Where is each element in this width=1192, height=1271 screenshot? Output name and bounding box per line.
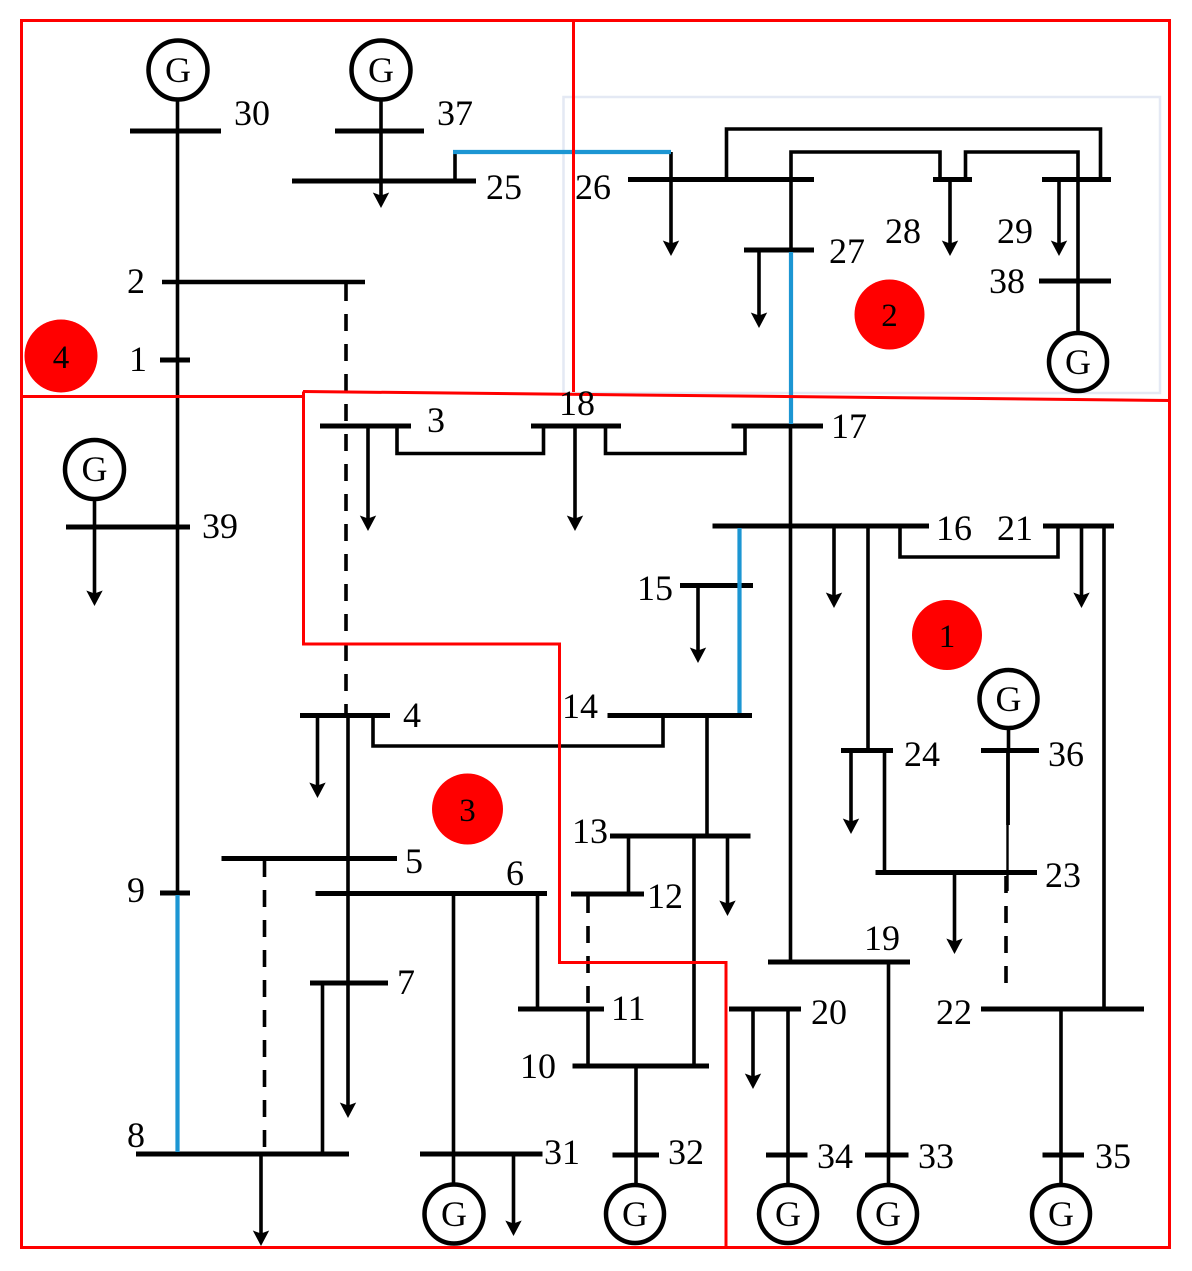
wire G37 to bus37 — [379, 100, 383, 131]
bus 21 bar — [1043, 524, 1114, 529]
bus 36 bar — [981, 748, 1039, 753]
svg-text:24: 24 — [904, 734, 940, 774]
svg-text:31: 31 — [544, 1132, 580, 1172]
wire link 3-18 — [397, 426, 544, 454]
svg-text:3: 3 — [459, 793, 476, 829]
wire link 4-14 — [373, 716, 663, 747]
wire bus16 to bus24 — [866, 526, 870, 751]
svg-text:8: 8 — [127, 1115, 145, 1155]
bus 7 bar — [310, 981, 388, 986]
bus 13 bar — [610, 834, 751, 839]
bus 5 bar — [222, 856, 398, 861]
load arrow bus 29 shaft — [1057, 180, 1061, 249]
zone 3 boundary polyline — [304, 392, 727, 1247]
zone divider 4/2 vertical — [572, 20, 575, 392]
load arrow bus 20 shaft — [751, 1009, 755, 1081]
wire bus7 to bus8 — [321, 983, 325, 1154]
svg-text:6: 6 — [506, 853, 524, 893]
wire bus4-5-6-7 vertical with load arrow — [346, 716, 350, 1111]
dashed link bus23 to bus22 — [1004, 876, 1008, 990]
svg-text:32: 32 — [668, 1132, 704, 1172]
arrowhead bus21 load — [1073, 593, 1089, 609]
arrowhead bus23 load — [946, 939, 962, 955]
bus 19 bar — [768, 960, 910, 965]
load arrow bus 4 shaft — [316, 716, 320, 791]
svg-text:G: G — [82, 449, 108, 489]
generator G39 circle — [65, 440, 124, 499]
bus 23 bar — [876, 870, 1038, 875]
wire bus26 to bus27 — [789, 180, 793, 251]
wire bus38 to G38 — [1076, 281, 1080, 333]
wire link 28-29 — [966, 152, 1079, 180]
wire bus10 to bus32 — [634, 1066, 638, 1185]
arrowhead bus26 load — [663, 241, 679, 257]
svg-text:12: 12 — [647, 876, 683, 916]
bus 10 bar — [573, 1064, 710, 1069]
bus 34 bar — [766, 1153, 808, 1158]
zone circle 3 — [432, 774, 503, 845]
bus 16 bar — [713, 524, 930, 529]
bus 6 bar — [316, 891, 548, 896]
svg-text:2: 2 — [881, 298, 898, 334]
load arrow bus 16 shaft — [832, 526, 836, 600]
svg-text:38: 38 — [989, 261, 1025, 301]
svg-text:G: G — [441, 1194, 467, 1234]
load arrow bus 23 shaft — [953, 873, 957, 947]
svg-text:G: G — [875, 1194, 901, 1234]
load arrow bus 24 shaft — [849, 751, 853, 827]
arrowhead bus8 load — [253, 1231, 269, 1247]
zone 2 highlight rect — [564, 97, 1161, 393]
dashed link bus5 to bus8 — [263, 860, 267, 1154]
generator G38 circle — [1049, 333, 1107, 391]
svg-text:19: 19 — [864, 918, 900, 958]
svg-text:36: 36 — [1048, 734, 1084, 774]
zone divider sloping line — [303, 392, 1169, 401]
generator G37 circle — [352, 41, 411, 100]
svg-text:1: 1 — [129, 339, 147, 379]
wire bus14 to bus13 — [705, 716, 709, 837]
generator G33 circle — [859, 1185, 917, 1243]
svg-text:35: 35 — [1095, 1136, 1131, 1176]
bus 17 bar — [732, 424, 824, 429]
bus 28 bar — [933, 177, 972, 182]
arrowhead bus3 load — [360, 516, 376, 532]
arrowhead bus20 load — [745, 1074, 761, 1090]
load arrow bus 39 shaft — [93, 527, 97, 598]
zone circle 2 — [855, 280, 925, 350]
load arrow bus 13 shaft — [726, 836, 730, 908]
svg-text:10: 10 — [520, 1046, 556, 1086]
svg-text:18: 18 — [559, 383, 595, 423]
bus 1 tick — [160, 358, 190, 363]
svg-text:23: 23 — [1045, 855, 1081, 895]
blue line bus9 to bus8 — [175, 895, 179, 1152]
bus 12 bar — [571, 892, 644, 897]
svg-text:28: 28 — [885, 211, 921, 251]
svg-text:1: 1 — [939, 619, 956, 655]
wire bus22 to bus35 — [1059, 1009, 1063, 1185]
svg-text:G: G — [622, 1194, 648, 1234]
load arrow bus 18 shaft — [573, 426, 577, 523]
svg-text:G: G — [1065, 342, 1091, 382]
arrowhead bus27 load — [751, 313, 767, 329]
svg-text:17: 17 — [831, 406, 867, 446]
wire bus6 to bus31/G31 — [452, 894, 456, 1186]
bus 31 bar — [420, 1152, 543, 1157]
svg-text:20: 20 — [811, 992, 847, 1032]
load arrow bus 27 shaft — [757, 250, 761, 320]
load arrow bus 15 shaft — [696, 586, 700, 656]
svg-text:22: 22 — [936, 992, 972, 1032]
bus 38 bar — [1039, 279, 1111, 284]
svg-text:G: G — [165, 50, 191, 90]
bus 2 bar — [162, 280, 365, 285]
svg-text:G: G — [996, 679, 1022, 719]
bus 27 bar — [744, 248, 814, 253]
svg-text:29: 29 — [997, 211, 1033, 251]
svg-text:16: 16 — [936, 508, 972, 548]
zone divider horizontal left — [21, 395, 304, 398]
svg-text:14: 14 — [562, 686, 598, 726]
bus 9 tick — [160, 891, 190, 896]
svg-text:37: 37 — [437, 93, 473, 133]
bus 32 bar — [613, 1153, 660, 1158]
wire bus29 to bus38 — [1076, 180, 1080, 282]
generator G32 circle — [606, 1185, 664, 1243]
svg-text:15: 15 — [637, 568, 673, 608]
bus 24 bar — [841, 748, 893, 753]
svg-text:G: G — [368, 50, 394, 90]
blue line bus16 to bus14 — [737, 528, 741, 713]
wire bus25 jog up to blue line — [453, 152, 457, 181]
wire link 16-21 — [900, 526, 1058, 557]
svg-text:39: 39 — [202, 506, 238, 546]
arrowhead bus28 load — [942, 241, 958, 257]
wire bus19 to bus33 — [887, 962, 891, 1185]
svg-text:4: 4 — [403, 695, 421, 735]
svg-text:21: 21 — [997, 508, 1033, 548]
bus 4 bar — [300, 713, 390, 718]
generator G30 circle — [149, 41, 208, 100]
arrowhead bus29 load — [1051, 241, 1067, 257]
bus 37 bar — [335, 129, 424, 134]
svg-text:G: G — [1048, 1194, 1074, 1234]
bus 14 bar — [608, 713, 753, 718]
load arrow bus 21 shaft — [1080, 526, 1084, 600]
arrowhead bus7 load — [340, 1103, 356, 1119]
svg-text:27: 27 — [829, 231, 865, 271]
svg-text:25: 25 — [486, 167, 522, 207]
svg-text:33: 33 — [918, 1136, 954, 1176]
generator G31 circle — [425, 1185, 484, 1244]
bus 8 bar — [136, 1152, 349, 1157]
bus 22 bar — [981, 1007, 1144, 1012]
wire G36 to bus36 — [1007, 728, 1011, 751]
svg-text:26: 26 — [575, 167, 611, 207]
generator G36 circle — [980, 670, 1038, 728]
arrowhead bus39 load — [86, 591, 102, 607]
bus 3 bar — [320, 424, 411, 429]
bus 39 bar — [66, 525, 190, 530]
arrowhead bus37 load — [373, 193, 389, 209]
svg-text:30: 30 — [234, 93, 270, 133]
bus 15 bar — [680, 583, 753, 588]
bus 11 bar — [518, 1007, 604, 1012]
svg-text:4: 4 — [53, 340, 70, 376]
svg-text:9: 9 — [127, 870, 145, 910]
wire bus6 to bus11 — [536, 894, 540, 1010]
bus 25 bar — [292, 179, 476, 184]
bus 20 bar — [729, 1007, 801, 1012]
generator G34 circle — [759, 1185, 817, 1243]
wire bus24 to bus23 — [883, 751, 887, 873]
load arrow bus 3 shaft — [366, 426, 370, 523]
svg-text:5: 5 — [405, 841, 423, 881]
svg-text:13: 13 — [572, 811, 608, 851]
wire bus13 to bus10 — [692, 836, 696, 1066]
zone circle 1 — [912, 600, 982, 670]
arrowhead bus4 load — [309, 783, 325, 799]
dashed line bus2 to bus4 — [344, 284, 348, 715]
arrowhead bus16 load — [826, 593, 842, 609]
svg-text:7: 7 — [397, 962, 415, 1002]
blue line bus25 to bus26 — [453, 150, 671, 154]
svg-text:34: 34 — [817, 1136, 853, 1176]
arrowhead bus15 load — [690, 648, 706, 664]
zone circle 4 — [25, 320, 98, 393]
arrowhead bus13 load — [719, 901, 735, 917]
svg-text:3: 3 — [427, 400, 445, 440]
load arrow bus 37 shaft — [379, 131, 383, 200]
svg-text:G: G — [775, 1194, 801, 1234]
wire bus36 to bus23 — [1006, 751, 1010, 826]
wire bus13 to bus12 — [627, 836, 631, 894]
svg-text:2: 2 — [127, 261, 145, 301]
wire bus17 to bus19 — [789, 426, 793, 962]
arrowhead bus24 load — [843, 819, 859, 835]
bus 30 bar — [130, 129, 221, 134]
svg-text:11: 11 — [611, 988, 646, 1028]
wire blue end down to bus26 + load arrow 26 shaft — [669, 152, 673, 248]
blue line bus27 to bus17 — [789, 252, 793, 424]
wire bus11 to bus10 — [586, 1009, 590, 1066]
dashed link bus12 to bus11 — [586, 896, 590, 1009]
bus 33 bar — [865, 1153, 909, 1158]
generator G35 circle — [1032, 1185, 1090, 1243]
load arrow bus 28 shaft — [948, 180, 952, 249]
load arrow bus 31 shaft — [512, 1154, 516, 1228]
wire bus20 to bus34 — [786, 1009, 790, 1185]
wire bus30-2-1-39-9 main vertical — [176, 100, 180, 894]
arrowhead bus18 load — [567, 516, 583, 532]
wire G39 to bus39 — [93, 499, 97, 527]
wire bus21 to bus22 — [1102, 526, 1106, 1009]
arrowhead bus31 load — [505, 1221, 521, 1237]
bus 29 bar — [1042, 177, 1111, 182]
wire link 26-29 upper — [727, 129, 1101, 180]
bus 26 bar — [628, 177, 814, 182]
wire link 18-17 — [606, 426, 746, 454]
bus 18 bar — [531, 424, 621, 429]
load arrow bus 8 shaft — [259, 1154, 263, 1238]
wire link 26-28 — [791, 152, 940, 180]
bus 35 bar — [1043, 1153, 1085, 1158]
